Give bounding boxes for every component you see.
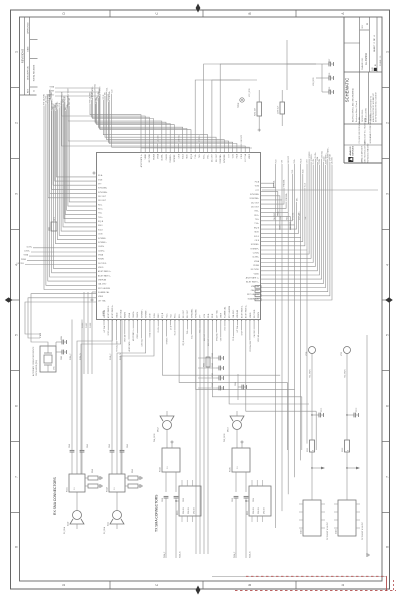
svg-text:TX0-: TX0- [191, 335, 193, 339]
svg-text:VDDD: VDDD [250, 312, 252, 318]
svg-text:RX1-: RX1- [292, 169, 294, 173]
svg-text:DS TVDD: DS TVDD [149, 153, 151, 162]
svg-text:IRQ B: IRQ B [254, 227, 260, 229]
svg-text:C140: C140 [69, 444, 71, 448]
svg-text:2: 2 [386, 122, 390, 124]
svg-text:SYNCINB+: SYNCINB+ [249, 198, 259, 200]
svg-text:D13 OUT: D13 OUT [241, 135, 243, 142]
svg-text:SYSREF+: SYSREF+ [170, 153, 172, 163]
svg-text:VREF: VREF [221, 312, 223, 318]
svg-text:RX2A_N: RX2A_N [119, 353, 122, 360]
svg-text:VREF AB: VREF AB [98, 278, 107, 281]
svg-text:TX2_MON: TX2_MON [345, 369, 347, 378]
svg-text:RX1-: RX1- [208, 154, 210, 159]
svg-text:D13 OUT: D13 OUT [183, 309, 185, 318]
svg-text:DS TVDD: DS TVDD [321, 150, 323, 158]
svg-text:DRAWING NO.: DRAWING NO. [361, 57, 364, 70]
svg-text:VREF AB: VREF AB [236, 309, 239, 318]
svg-text:RST CALRUN: RST CALRUN [249, 340, 252, 352]
svg-text:VREF: VREF [241, 331, 243, 336]
svg-text:VCM: VCM [111, 89, 113, 93]
svg-text:VCM: VCM [204, 313, 206, 318]
svg-text:OSCILLATOR (DNI): OSCILLATOR (DNI) [35, 360, 38, 376]
svg-text:DEVICES: DEVICES [352, 145, 354, 155]
svg-text:VCM: VCM [225, 326, 227, 330]
svg-text:CS B: CS B [98, 234, 103, 236]
svg-text:PDWN: PDWN [153, 153, 155, 159]
svg-text:SYSREF+: SYSREF+ [199, 135, 201, 143]
svg-text:5: 5 [386, 334, 390, 336]
svg-text:CLKIN-: CLKIN- [166, 154, 168, 161]
svg-text:SYNCINB+: SYNCINB+ [220, 153, 222, 163]
svg-text:RX2A_P: RX2A_P [109, 353, 112, 360]
svg-text:DNI 49.9: DNI 49.9 [188, 507, 190, 514]
svg-text:TP102: TP102 [238, 103, 240, 108]
svg-text:LVT TXA: LVT TXA [215, 310, 218, 318]
svg-text:VTT: VTT [61, 92, 63, 95]
svg-text:D12 OUT: D12 OUT [251, 202, 260, 204]
svg-text:C193: C193 [212, 353, 214, 357]
svg-text:DS TVDD: DS TVDD [254, 309, 256, 318]
svg-text:SCLK: SCLK [254, 236, 260, 238]
svg-text:CLKIN+: CLKIN+ [315, 152, 317, 158]
svg-text:TX SMA CONNECTORS: TX SMA CONNECTORS [155, 494, 159, 532]
svg-text:RX SMA CONNECTORS: RX SMA CONNECTORS [53, 476, 57, 515]
svg-text:SCLK: SCLK [183, 153, 185, 159]
svg-text:0: 0 [312, 450, 314, 451]
svg-text:PDWN: PDWN [21, 259, 27, 261]
svg-text:3: 3 [15, 193, 19, 195]
svg-text:ANALOG: ANALOG [349, 146, 352, 155]
svg-text:AT-BT RATE L+: AT-BT RATE L+ [98, 270, 112, 273]
svg-text:CS B: CS B [178, 153, 180, 158]
svg-text:6: 6 [386, 405, 390, 407]
svg-text:PDWN: PDWN [253, 265, 259, 267]
svg-text:VTT: VTT [221, 338, 223, 341]
svg-text:SDIO: SDIO [158, 313, 160, 318]
svg-text:VDDD: VDDD [98, 267, 104, 269]
svg-text:REVISIONS: REVISIONS [21, 49, 25, 63]
svg-text:SHEET 2 OF 4: SHEET 2 OF 4 [374, 35, 376, 52]
svg-text:LVT TXA: LVT TXA [98, 299, 106, 302]
svg-text:TX0-: TX0- [255, 219, 259, 221]
svg-text:RX1A_P: RX1A_P [69, 353, 72, 360]
svg-text:TXB_MON: TXB_MON [224, 433, 226, 442]
svg-text:RX1-: RX1- [98, 204, 103, 206]
svg-text:B: B [248, 584, 252, 586]
svg-text:SCALE : 1:1: SCALE : 1:1 [379, 56, 382, 66]
svg-text:D12 OUT: D12 OUT [98, 196, 107, 198]
svg-text:SYSREF-: SYSREF- [146, 309, 148, 318]
svg-text:DS TVDD: DS TVDD [251, 269, 260, 271]
svg-text:CLKIN+: CLKIN+ [24, 251, 30, 253]
svg-text:RX_SMA: RX_SMA [63, 526, 66, 534]
svg-text:C104: C104 [61, 336, 63, 340]
svg-text:SYNCINB+: SYNCINB+ [286, 193, 288, 202]
svg-text:AD-FMCOMMS11-EBZ (REORDERED): AD-FMCOMMS11-EBZ (REORDERED) [351, 88, 354, 122]
svg-text:4: 4 [386, 264, 390, 266]
svg-text:VDD_1P8V: VDD_1P8V [313, 76, 315, 86]
svg-text:RST CALRUN: RST CALRUN [228, 305, 231, 318]
svg-text:Y101: Y101 [40, 332, 42, 338]
svg-text:SYSREF-: SYSREF- [251, 244, 260, 246]
svg-text:TX1_MON: TX1_MON [310, 369, 312, 378]
svg-text:8: 8 [386, 546, 390, 548]
svg-text:DNI 49.9: DNI 49.9 [183, 507, 185, 514]
svg-text:VREF AB: VREF AB [257, 334, 260, 342]
svg-text:PDWN: PDWN [125, 312, 127, 318]
svg-text:SYNCINB-: SYNCINB- [224, 154, 226, 163]
svg-text:VSSA: VSSA [157, 153, 160, 159]
svg-text:RST CALRUN: RST CALRUN [98, 287, 111, 290]
svg-text:CAL DSO: CAL DSO [98, 283, 107, 286]
svg-text:C192: C192 [212, 363, 214, 367]
svg-text:C135: C135 [329, 87, 331, 91]
svg-text:TX2A_N: TX2A_N [249, 551, 252, 558]
svg-text:3: 3 [386, 193, 390, 195]
svg-text:AT-BT RATE L-: AT-BT RATE L- [128, 340, 131, 352]
svg-text:Evaluation Board Rev. A: Evaluation Board Rev. A [355, 100, 358, 122]
svg-text:TX0-: TX0- [305, 216, 307, 220]
svg-text:DS TVDD: DS TVDD [95, 83, 97, 91]
svg-text:BE REPRODUCED WITHOUT CONSENT: BE REPRODUCED WITHOUT CONSENT [375, 92, 377, 122]
svg-text:AT-BT RATE L+: AT-BT RATE L+ [111, 304, 114, 318]
svg-text:RST CALRUN: RST CALRUN [247, 293, 260, 296]
svg-text:VREF AB: VREF AB [251, 285, 260, 288]
svg-text:TX0-: TX0- [171, 314, 173, 318]
svg-text:CLKIN-: CLKIN- [313, 158, 315, 164]
svg-text:SYSREF+: SYSREF+ [311, 154, 313, 162]
svg-text:SCANIN CAL: SCANIN CAL [224, 307, 227, 318]
svg-text:C191: C191 [212, 373, 214, 377]
svg-text:PDWN: PDWN [258, 312, 260, 318]
svg-text:IRQ B: IRQ B [162, 312, 164, 318]
svg-text:DESCRIPTION: DESCRIPTION [28, 66, 30, 80]
svg-text:D13 OUT: D13 OUT [98, 200, 107, 202]
svg-text:ANALOG DEVICES: ANALOG DEVICES [361, 145, 364, 162]
svg-text:SDIO: SDIO [303, 169, 305, 174]
svg-text:VREF: VREF [280, 216, 282, 220]
svg-text:SYSREF+: SYSREF+ [141, 308, 143, 318]
svg-text:AT-BT RATE L+: AT-BT RATE L+ [132, 329, 135, 341]
svg-text:D12 OUT: D12 OUT [187, 309, 189, 318]
svg-text:1:1: 1:1 [237, 467, 239, 470]
svg-text:D13 OUT: D13 OUT [212, 153, 214, 162]
svg-text:SCANIN CAL: SCANIN CAL [98, 291, 109, 294]
svg-text:C115: C115 [49, 227, 51, 231]
svg-text:CLK86: CLK86 [82, 323, 84, 328]
svg-text:TX2A_P: TX2A_P [233, 551, 236, 558]
svg-text:D13 OUT: D13 OUT [251, 207, 260, 209]
svg-text:VCM: VCM [233, 154, 235, 159]
svg-text:B: B [248, 12, 252, 14]
svg-text:TX0-: TX0- [98, 213, 102, 215]
svg-text:CLKIN+: CLKIN+ [252, 257, 260, 259]
svg-text:DS TVDD: DS TVDD [98, 263, 107, 265]
svg-text:VCM: VCM [255, 186, 260, 188]
svg-text:VREF: VREF [98, 296, 104, 298]
svg-text:SYSREF+: SYSREF+ [98, 242, 108, 244]
svg-text:DATE: DATE [27, 46, 30, 52]
svg-text:VCC_3P3V: VCC_3P3V [249, 87, 251, 97]
svg-text:RX_SMA: RX_SMA [103, 526, 106, 534]
svg-text:SCHEMATIC: SCHEMATIC [345, 78, 350, 102]
svg-text:C142: C142 [87, 444, 89, 448]
svg-text:CLKIN-: CLKIN- [137, 311, 139, 318]
svg-text:C196: C196 [235, 382, 237, 386]
svg-text:TXA_MON: TXA_MON [153, 433, 156, 442]
svg-text:TX0+: TX0+ [187, 330, 189, 334]
svg-text:R164 10K: R164 10K [255, 107, 257, 116]
svg-text:DNI 49.9: DNI 49.9 [263, 507, 265, 514]
svg-text:R140: R140 [92, 469, 94, 473]
svg-text:7: 7 [386, 476, 390, 478]
svg-text:SYNCINB-: SYNCINB- [98, 188, 107, 190]
svg-text:C103: C103 [61, 356, 63, 360]
svg-text:SYSREF-: SYSREF- [174, 154, 176, 163]
svg-text:1:1: 1:1 [114, 488, 116, 491]
svg-text:RX1-: RX1- [255, 211, 260, 213]
svg-text:SYSREF-: SYSREF- [309, 151, 311, 159]
svg-text:VCM: VCM [280, 225, 282, 229]
svg-text:FD B: FD B [212, 313, 214, 318]
svg-text:PDWN: PDWN [319, 158, 321, 164]
svg-text:D12 OUT: D12 OUT [216, 153, 218, 162]
svg-text:CLKIN+: CLKIN+ [98, 250, 106, 252]
svg-text:A: A [365, 23, 369, 25]
svg-text:DS TVDD: DS TVDD [141, 338, 143, 346]
svg-text:AT-BT RATE L-: AT-BT RATE L- [98, 274, 111, 277]
svg-text:INITIAL RELEASE: INITIAL RELEASE [32, 64, 35, 81]
svg-text:SYNCINB-: SYNCINB- [293, 212, 295, 220]
svg-text:SCLK: SCLK [98, 229, 104, 231]
svg-text:VCM: VCM [98, 179, 103, 181]
svg-text:SYSREF-: SYSREF- [100, 86, 102, 94]
svg-text:TX1A_P: TX1A_P [163, 551, 166, 558]
svg-text:FD B: FD B [241, 153, 243, 158]
svg-text:SYNCINB-: SYNCINB- [196, 309, 198, 318]
svg-text:PDWN: PDWN [49, 91, 55, 93]
svg-text:AT-BT RATE L+: AT-BT RATE L+ [140, 153, 143, 167]
svg-text:SYSREF-: SYSREF- [98, 238, 107, 240]
svg-text:SDIO: SDIO [254, 232, 259, 234]
svg-text:DNI 49.9: DNI 49.9 [193, 507, 195, 514]
svg-text:AT-BT RATE L-: AT-BT RATE L- [107, 305, 110, 318]
svg-text:VDDD: VDDD [323, 156, 325, 162]
svg-text:FD A: FD A [236, 153, 239, 158]
svg-text:DS TVDD: DS TVDD [47, 95, 55, 97]
svg-text:VREF AB: VREF AB [103, 309, 106, 318]
svg-text:VDDD: VDDD [68, 88, 70, 94]
svg-text:SCLK: SCLK [154, 312, 156, 318]
svg-text:R151: R151 [247, 511, 249, 515]
svg-text:CLKIN-: CLKIN- [26, 246, 32, 248]
svg-text:SYSREF-: SYSREF- [166, 337, 168, 345]
svg-text:VDDD: VDDD [254, 273, 260, 275]
svg-text:FD A: FD A [98, 174, 103, 177]
svg-text:VDDD: VDDD [137, 333, 139, 339]
svg-text:C153: C153 [183, 498, 185, 502]
svg-text:R102: R102 [204, 363, 206, 367]
svg-text:D13 OUT: D13 OUT [68, 96, 70, 103]
svg-text:LVT TXA: LVT TXA [236, 325, 239, 333]
svg-text:CAL DSO: CAL DSO [232, 309, 235, 318]
svg-text:C190: C190 [212, 383, 214, 387]
svg-text:SYSREF+: SYSREF+ [250, 248, 260, 250]
svg-text:APPROVED: APPROVED [27, 22, 30, 34]
svg-text:SDIO: SDIO [98, 225, 103, 227]
svg-text:R141: R141 [132, 469, 134, 473]
svg-text:C154: C154 [253, 498, 255, 502]
svg-text:DC INHIBIT & SHUNT: DC INHIBIT & SHUNT [327, 521, 329, 540]
svg-text:CLKIN-: CLKIN- [253, 252, 260, 254]
svg-text:8: 8 [15, 546, 19, 548]
svg-text:RX1A_N: RX1A_N [79, 353, 82, 360]
svg-text:CLKIN+: CLKIN+ [133, 310, 135, 318]
svg-text:0: 0 [347, 450, 349, 451]
svg-text:R162: R162 [342, 448, 344, 452]
svg-text:AT-BT RATE L-: AT-BT RATE L- [246, 281, 259, 284]
svg-text:IRQ B: IRQ B [191, 153, 193, 159]
svg-text:NORWOOD, MA 02062: NORWOOD, MA 02062 [367, 144, 370, 163]
svg-text:AT-BT RATE L+: AT-BT RATE L+ [246, 276, 260, 279]
svg-text:7: 7 [15, 476, 19, 478]
svg-text:R161: R161 [307, 448, 309, 452]
svg-text:CLK87: CLK87 [86, 323, 88, 328]
svg-text:VSSA: VSSA [254, 260, 260, 263]
svg-text:C172: C172 [356, 408, 358, 412]
svg-text:SYNCINB+: SYNCINB+ [98, 192, 108, 194]
svg-text:6: 6 [15, 405, 19, 407]
svg-text:VDDD: VDDD [145, 153, 147, 159]
svg-text:CS B: CS B [150, 313, 152, 318]
svg-text:SYNCINB-: SYNCINB- [284, 179, 286, 188]
svg-text:CAL DSO: CAL DSO [253, 329, 256, 337]
svg-text:1: 1 [386, 51, 390, 53]
svg-text:DESIGN VIEW :: DESIGN VIEW : [362, 109, 364, 122]
svg-text:GL 437343: GL 437343 [365, 53, 368, 65]
svg-text:C137: C137 [329, 59, 331, 63]
svg-text:DC INHIBIT & SHUNT: DC INHIBIT & SHUNT [362, 521, 364, 540]
svg-text:DNI 49.9: DNI 49.9 [258, 507, 260, 514]
svg-text:D13 OUT: D13 OUT [290, 222, 292, 229]
svg-text:DS TVDD: DS TVDD [17, 263, 25, 265]
svg-text:D12 OUT: D12 OUT [288, 156, 290, 163]
svg-text:DS TVDD: DS TVDD [121, 309, 123, 318]
svg-text:CLK88: CLK88 [90, 323, 92, 328]
svg-text:ANALOG_DEMO: ANALOG_DEMO [365, 108, 368, 122]
svg-text:VDDD: VDDD [116, 312, 118, 318]
svg-text:CLKIN+: CLKIN+ [162, 153, 164, 161]
svg-text:TX0-: TX0- [199, 154, 201, 158]
svg-text:C150: C150 [162, 498, 164, 502]
svg-text:RX1+: RX1+ [294, 159, 296, 163]
svg-text:D12 OUT: D12 OUT [208, 339, 210, 346]
svg-text:C141: C141 [109, 444, 111, 448]
svg-text:VREF: VREF [249, 153, 251, 159]
svg-text:C171: C171 [321, 408, 323, 412]
svg-text:IRQ B: IRQ B [98, 221, 104, 223]
svg-text:VREF: VREF [108, 331, 110, 336]
svg-text:CS B: CS B [255, 240, 260, 242]
svg-text:LVT TXA: LVT TXA [272, 180, 275, 188]
svg-text:VREF AB: VREF AB [124, 334, 127, 342]
svg-text:CLKIN-: CLKIN- [98, 246, 105, 248]
svg-text:1:1: 1:1 [74, 488, 76, 491]
svg-text:DNI 49.9: DNI 49.9 [253, 507, 255, 514]
svg-text:C143: C143 [127, 444, 129, 448]
svg-text:TX1A_N: TX1A_N [179, 551, 182, 558]
svg-text:RX1-: RX1- [106, 87, 108, 91]
svg-text:C136: C136 [329, 73, 331, 77]
svg-text:R150: R150 [177, 511, 179, 515]
svg-text:ALTERNATE 100MHZ REFERENCE: ALTERNATE 100MHZ REFERENCE [32, 346, 35, 376]
svg-text:C151: C151 [232, 498, 234, 502]
svg-text:2: 2 [15, 122, 19, 124]
svg-text:RST CALRUN: RST CALRUN [115, 340, 118, 352]
svg-text:RX1-: RX1- [179, 313, 181, 318]
svg-text:VSSA: VSSA [98, 253, 104, 256]
svg-text:REV: REV [28, 88, 30, 93]
svg-text:PDWN: PDWN [98, 259, 104, 261]
svg-text:LVT TXA: LVT TXA [103, 325, 106, 333]
svg-text:JT11: JT11 [341, 352, 343, 356]
svg-text:SCANIN CAL: SCANIN CAL [248, 297, 259, 300]
svg-text:SDIO: SDIO [187, 153, 189, 158]
svg-text:SYNCINB+: SYNCINB+ [191, 308, 193, 318]
svg-text:1: 1 [15, 51, 19, 53]
svg-text:FD A: FD A [207, 313, 210, 318]
svg-text:VSSA: VSSA [128, 312, 131, 318]
svg-text:5: 5 [15, 334, 19, 336]
svg-text:VTT: VTT [282, 160, 284, 163]
svg-text:JT10: JT10 [306, 352, 308, 356]
svg-text:TX0-: TX0- [296, 197, 298, 201]
svg-text:FD A: FD A [255, 181, 260, 184]
svg-text:TX0+: TX0+ [298, 211, 300, 215]
svg-text:AT-BT RATE L+: AT-BT RATE L+ [245, 304, 248, 318]
svg-text:1:1: 1:1 [167, 467, 169, 470]
svg-text:SYNCINB-: SYNCINB- [216, 333, 218, 342]
svg-text:CLKIN-: CLKIN- [158, 327, 160, 333]
svg-text:C168 1UF: C168 1UF [278, 105, 280, 114]
svg-text:SYNCINB-: SYNCINB- [250, 194, 259, 196]
svg-text:LVT TXA: LVT TXA [244, 153, 247, 161]
svg-text:22PF: 22PF [54, 217, 56, 221]
svg-text:AT-BT RATE L-: AT-BT RATE L- [240, 305, 243, 318]
